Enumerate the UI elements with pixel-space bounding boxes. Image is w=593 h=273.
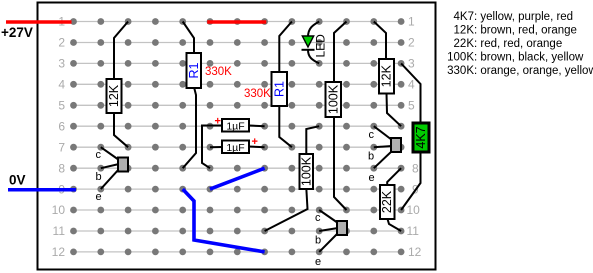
svg-text:12K: 12K xyxy=(380,64,394,87)
svg-text:12K: 12K xyxy=(107,84,121,107)
LED D1 : cathode bar xyxy=(302,49,315,51)
svg-text:330K: 330K xyxy=(244,88,271,100)
svg-text:7: 7 xyxy=(58,140,65,154)
resistor R8 22K : leads xyxy=(387,168,401,186)
svg-text:8: 8 xyxy=(412,161,419,175)
svg-text:330K: 330K xyxy=(447,65,474,77)
svg-text:330K: 330K xyxy=(205,66,232,78)
svg-text:4K7: 4K7 xyxy=(414,126,428,148)
svg-text:LED: LED xyxy=(314,34,328,58)
hole dots grid xyxy=(70,18,404,255)
red wire link row 1 cols 6-8 xyxy=(207,20,266,24)
svg-text:5: 5 xyxy=(58,99,65,113)
blue wire row 9 col 5 to row 12 col 8 xyxy=(183,189,265,252)
svg-text:: yellow, purple, red: : yellow, purple, red xyxy=(474,11,573,23)
svg-text:e: e xyxy=(315,256,321,268)
resistor R6 100K lower : leads xyxy=(306,126,319,155)
resistor R1 330K middle : leads xyxy=(279,22,292,74)
transistor Q3 : body xyxy=(391,138,401,152)
svg-text:: brown, red, orange: : brown, red, orange xyxy=(474,25,577,37)
svg-text:8: 8 xyxy=(58,161,65,175)
row number labels right xyxy=(407,15,422,259)
resistor R7 4K7 : leads xyxy=(401,63,420,124)
svg-text:12K: 12K xyxy=(454,25,475,37)
resistor R1 330K left : body xyxy=(187,53,202,88)
resistor R5 12K right : leads xyxy=(374,22,386,61)
resistor R8 22K : body xyxy=(380,185,395,219)
svg-text:: red, red, orange: : red, red, orange xyxy=(474,38,562,50)
svg-text:22K: 22K xyxy=(380,190,394,213)
capacitor C2 1uF : body xyxy=(222,141,249,154)
LED D1 : top lead xyxy=(308,22,319,38)
capacitor C1 1uF : leads xyxy=(202,126,222,169)
resistor R5 12K right : body xyxy=(379,59,394,94)
svg-text:11: 11 xyxy=(407,224,420,238)
svg-text:10: 10 xyxy=(52,203,66,217)
capacitor C1 1uF : body xyxy=(222,119,249,132)
svg-text:1: 1 xyxy=(408,15,415,29)
resistor R1 330K middle : body xyxy=(272,72,288,106)
svg-text:6: 6 xyxy=(58,119,65,133)
svg-text:e: e xyxy=(96,191,102,203)
svg-text:3: 3 xyxy=(58,57,65,71)
svg-text:e: e xyxy=(369,172,375,184)
svg-text:b: b xyxy=(368,151,374,163)
blue wire 0V feed row 9 xyxy=(8,188,76,192)
svg-text:4K7: 4K7 xyxy=(454,11,474,23)
resistor R4 100K upper : body xyxy=(326,82,342,117)
svg-text:4: 4 xyxy=(58,78,65,92)
svg-text:b: b xyxy=(96,171,102,183)
svg-text:100K: 100K xyxy=(326,84,340,114)
svg-text:22K: 22K xyxy=(454,38,475,50)
resistor R2 12K left : body xyxy=(107,79,122,113)
svg-text:10: 10 xyxy=(407,203,421,217)
transistor Q1 : body xyxy=(118,158,128,172)
blue wire row 9 col 6 to row 8 col 8 xyxy=(210,168,265,189)
svg-text:1µF: 1µF xyxy=(226,142,244,154)
svg-text:12: 12 xyxy=(408,245,422,259)
svg-text:3: 3 xyxy=(408,57,415,71)
svg-text:R1: R1 xyxy=(187,62,201,78)
resistor R7 4K7 : body xyxy=(413,123,429,152)
svg-text:100K: 100K xyxy=(447,52,474,64)
svg-text:5: 5 xyxy=(408,99,415,113)
svg-text:+: + xyxy=(215,116,221,128)
svg-text:R1: R1 xyxy=(272,81,286,97)
svg-text:+27V: +27V xyxy=(1,25,33,40)
red wire +27V feed row 1 xyxy=(6,20,72,24)
svg-text:: brown, black, yellow: : brown, black, yellow xyxy=(474,52,584,64)
stripboard outline xyxy=(38,3,436,270)
resistor R4 100K upper : leads xyxy=(334,22,347,84)
svg-text:0V: 0V xyxy=(9,173,26,188)
svg-text:c: c xyxy=(369,129,375,141)
capacitor C2 1uF : leads xyxy=(210,146,222,148)
svg-text:11: 11 xyxy=(53,224,66,238)
row number labels left xyxy=(52,15,66,259)
resistor R2 12K left : leads xyxy=(114,22,128,81)
svg-text:c: c xyxy=(315,212,321,224)
resistor R6 100K lower : body xyxy=(300,154,314,189)
svg-text:4: 4 xyxy=(408,78,415,92)
svg-text:100K: 100K xyxy=(299,156,313,186)
LED D1 : bottom lead xyxy=(308,50,319,63)
transistor Q2 : body xyxy=(337,221,347,235)
svg-text:c: c xyxy=(96,149,102,161)
svg-text:: orange, orange, yellow: : orange, orange, yellow xyxy=(474,65,593,77)
resistor R1 330K left : leads xyxy=(183,22,194,55)
svg-text:1µF: 1µF xyxy=(226,121,244,133)
transistor Q2 : leads xyxy=(319,210,338,223)
transistor Q1 : leads xyxy=(101,147,119,160)
copper strip rows 1-12 xyxy=(74,22,402,252)
svg-text:+: + xyxy=(252,136,258,148)
svg-text:12: 12 xyxy=(52,245,66,259)
legend resistor colour codes xyxy=(447,11,593,77)
svg-text:b: b xyxy=(315,235,321,247)
LED D1 : triangle xyxy=(302,36,313,47)
transistor Q3 : leads xyxy=(374,126,392,140)
svg-text:2: 2 xyxy=(408,36,415,50)
svg-text:2: 2 xyxy=(58,36,65,50)
